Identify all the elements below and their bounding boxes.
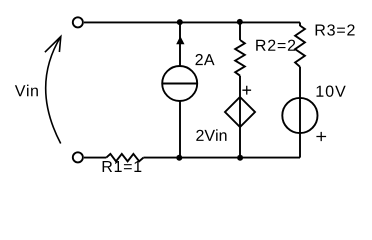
voltage source 10V circle — [282, 98, 317, 133]
label R1=1 — [103, 161, 142, 172]
label R3=2 — [316, 24, 355, 35]
label R2=2 — [256, 40, 295, 51]
Vin arrow arc — [46, 37, 61, 144]
current source chord — [162, 83, 197, 85]
wire current-source branch upper — [179, 22, 181, 65]
label 2A — [196, 54, 215, 65]
wire R2 branch upper — [239, 22, 241, 40]
wire through voltage source — [299, 67, 301, 158]
terminal bottom-left — [73, 152, 83, 162]
wire top rail — [84, 21, 300, 23]
junction dot bottom current-source — [176, 155, 182, 161]
Vin arrowhead — [45, 37, 61, 53]
junction dot top R2 — [237, 19, 243, 25]
wire bottom rail left segment — [84, 157, 106, 159]
current source arrowhead — [176, 36, 184, 44]
wire bottom rail right segment — [143, 157, 300, 159]
label 10V — [317, 86, 346, 97]
wire R2 branch through dependent source — [239, 76, 241, 158]
label Vin — [15, 85, 38, 97]
junction dot top current-source — [177, 19, 183, 25]
junction dot bottom R2 — [237, 155, 243, 161]
wire R3 branch top corner and lead — [299, 22, 301, 26]
terminal top-left — [73, 17, 83, 27]
resistor R1 — [106, 154, 143, 161]
resistor R2 — [235, 40, 245, 76]
current source I1 circle — [162, 66, 197, 101]
plus sign of voltage source — [316, 132, 326, 141]
wire current-source branch lower — [179, 101, 181, 158]
label 2Vin — [196, 129, 226, 141]
resistor R3 — [295, 26, 305, 67]
dependent source 2Vin diamond — [225, 97, 255, 127]
plus sign of dependent source — [242, 86, 251, 95]
